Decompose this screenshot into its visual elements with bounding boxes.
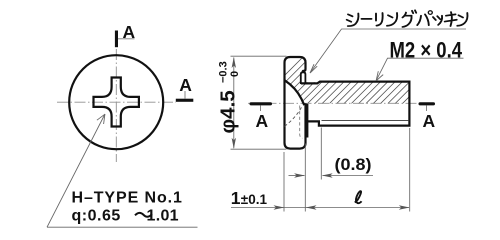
- shank and neck outline: [301, 82, 410, 126]
- svg-text:±0.1: ±0.1: [241, 192, 268, 207]
- n: [387, 13, 397, 26]
- section hatching: [256, 57, 464, 104]
- section mark tick right: [426, 106, 428, 112]
- ext line head right face: [304, 144, 306, 212]
- section mark tick right: [184, 91, 186, 99]
- leader arrowhead: [97, 114, 105, 124]
- label sealing packing (katakana, hand drawn): [347, 10, 468, 27]
- arrow 1/l shared: [306, 205, 317, 209]
- ri: [376, 13, 383, 26]
- svg-text:q:0.65: q:0.65: [72, 207, 121, 224]
- shi: [347, 13, 359, 26]
- leader line to recess: [47, 114, 105, 227]
- section mark bar right: [176, 99, 194, 102]
- ext line head left face: [283, 152, 285, 212]
- section mark bar left: [250, 102, 273, 105]
- dim line 0.8 left part: [289, 175, 305, 177]
- section mark bar top: [115, 31, 118, 48]
- arrow seal leader: [310, 64, 317, 73]
- arrow M2 leader: [376, 71, 383, 81]
- hidden line: recess wing (dashed vertical): [300, 106, 303, 139]
- small tsu: [433, 16, 442, 25]
- ext line head top: [231, 55, 287, 57]
- dim line bottom 1 and l: [231, 207, 409, 209]
- svg-text:H–TYPE No.1: H–TYPE No.1: [72, 190, 183, 207]
- ki: [445, 12, 457, 26]
- seal silhouette behind head (lower half): [305, 104, 309, 138]
- ext line shank end: [409, 128, 411, 212]
- ext line thread start: [320, 128, 322, 180]
- section mark bar right: [419, 102, 436, 105]
- head outline: [285, 57, 306, 149]
- svg-text:A: A: [123, 22, 136, 42]
- leader underline: [47, 226, 198, 228]
- recess wall (cone) in section: [285, 80, 305, 105]
- svg-text:A: A: [423, 111, 436, 131]
- gu (ku + dakuten): [403, 10, 417, 27]
- svg-text:1: 1: [231, 188, 241, 208]
- pa (ha + handakuten): [417, 14, 429, 25]
- head outline circle: [69, 55, 163, 149]
- centerline vertical: [115, 49, 117, 162]
- centerline horizontal: [57, 101, 176, 103]
- sealing packing cross-section: [301, 72, 306, 84]
- arrow 0.8 right: [322, 173, 333, 177]
- svg-text:A: A: [256, 111, 269, 131]
- ext line head bottom: [231, 148, 287, 150]
- dim text dia4.5 rotated: [217, 61, 242, 133]
- section mark tick left: [260, 106, 262, 112]
- arrow 1 left: [274, 205, 285, 209]
- dim line 0.8 right part: [323, 175, 374, 177]
- leader M2: [376, 58, 463, 80]
- svg-text:−0.3: −0.3: [218, 61, 230, 83]
- long bar: [362, 18, 372, 20]
- dim line dia 4.5: [233, 58, 235, 149]
- svg-text:M2 × 0.4: M2 × 0.4: [390, 37, 463, 62]
- n2: [457, 13, 467, 26]
- arrow dia bottom: [232, 138, 236, 149]
- arrow l right: [399, 205, 410, 209]
- section mark tick top: [118, 38, 135, 40]
- svg-text:0: 0: [229, 71, 241, 77]
- wave dash: [135, 213, 152, 217]
- dim text l (script ell): [355, 191, 362, 203]
- svg-text:φ4.5: φ4.5: [217, 90, 240, 133]
- arrow dia top: [232, 57, 236, 68]
- arrow 0.8 left: [294, 173, 305, 177]
- thread root line (external, lower): [322, 120, 410, 122]
- svg-text:(0.8): (0.8): [335, 156, 372, 174]
- svg-text:A: A: [179, 75, 192, 95]
- centerline axis: [248, 102, 420, 104]
- leader seal: [311, 29, 467, 72]
- phillips recess cross: [94, 78, 139, 127]
- hidden line: recess wall mirrored (dashed curve): [285, 106, 303, 127]
